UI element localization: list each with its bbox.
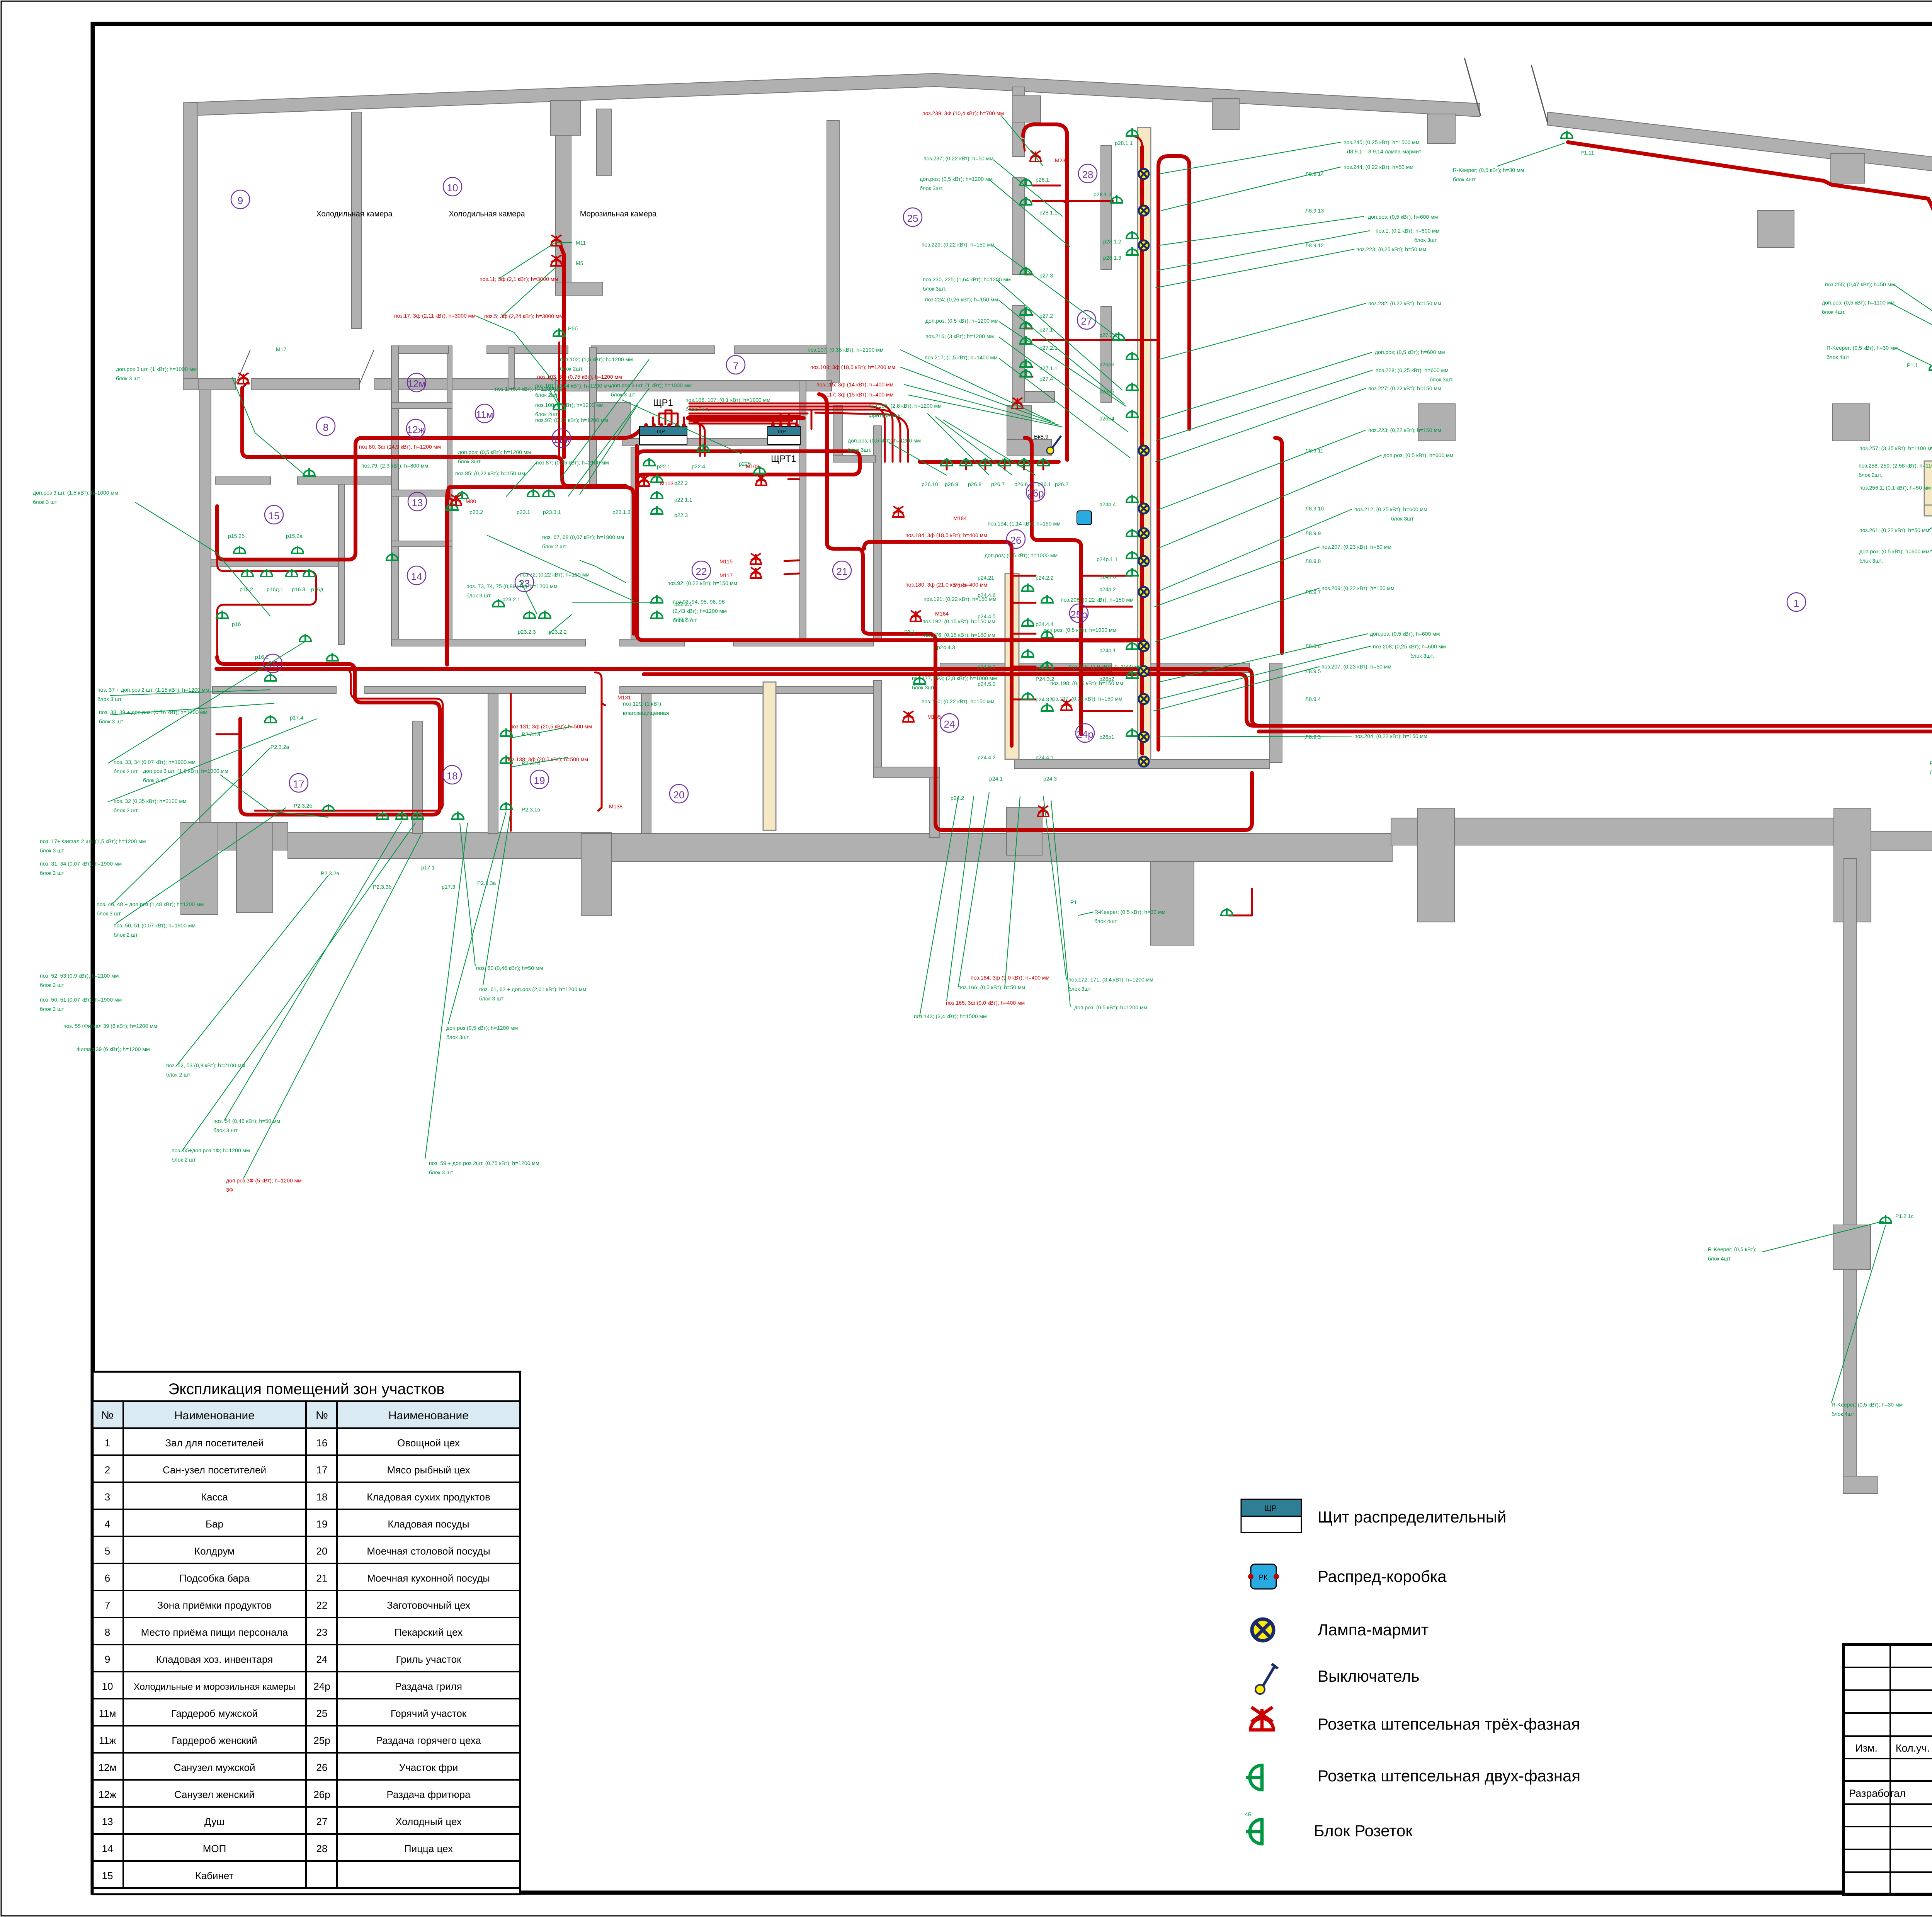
svg-text:Л8.9.10: Л8.9.10 <box>1305 505 1324 512</box>
svg-text:12ж: 12ж <box>407 424 425 435</box>
hall column B <box>1833 404 1870 441</box>
wall x=2621 seg2 <box>1013 178 1025 274</box>
svg-text:ЩР1: ЩР1 <box>653 398 673 408</box>
wall rooms8/15 divider <box>215 477 270 484</box>
two-phase socket at 2930,1490 <box>1126 568 1138 576</box>
two-phase socket at 2930,1445 <box>1126 551 1138 558</box>
fry area east stub <box>1007 439 1051 455</box>
legend: socket block <box>1245 1811 1413 1844</box>
marmite lamp at 2960,1166 <box>1139 446 1149 456</box>
svg-text:M11: M11 <box>576 240 586 246</box>
svg-text:R-Keeper; (0,5 кВт); h=30 мм: R-Keeper; (0,5 кВт); h=30 мм <box>1453 167 1524 173</box>
svg-text:M108: M108 <box>746 463 759 469</box>
south outer wall (left) <box>181 823 288 850</box>
svg-text:№: № <box>316 1409 328 1422</box>
trunk SHCHR1 west along y1133 then down to p15.1 <box>217 431 639 560</box>
svg-text:M117: M117 <box>719 572 733 578</box>
room22 west wall <box>631 447 638 640</box>
svg-text:p16.3: p16.3 <box>292 586 305 592</box>
svg-text:блок 4шт: блок 4шт <box>1827 354 1850 360</box>
13/14 divider <box>391 541 452 547</box>
svg-text:поз. 50, 51 (0,07 кВт); h=1900: поз. 50, 51 (0,07 кВт); h=1900 мм <box>114 922 196 929</box>
legend: two-phase socket <box>1246 1766 1580 1790</box>
svg-text:Кол.уч.: Кол.уч. <box>1896 1742 1930 1754</box>
wire room17 inner loop <box>238 669 443 811</box>
svg-text:26р: 26р <box>313 1789 330 1800</box>
svg-text:19: 19 <box>534 775 545 786</box>
room22 east wall <box>799 381 806 640</box>
svg-text:17: 17 <box>316 1464 328 1476</box>
svg-text:блок 4шт: блок 4шт <box>1708 1255 1731 1262</box>
corridor north wall seg2 <box>620 639 685 646</box>
svg-text:поз. 32 (0,35 кВт); h=2100 мм: поз. 32 (0,35 кВт); h=2100 мм <box>114 798 187 804</box>
two-phase socket at 1380,1285 <box>527 489 539 497</box>
wall x=2621 seg3 <box>1013 305 1025 402</box>
two-phase socket at 2380,1770 <box>914 676 925 684</box>
two-phase socket at 800,1232 <box>303 468 315 476</box>
svg-text:доп.роз; (0,5 кВт); h=1200 мм: доп.роз; (0,5 кВт); h=1200 мм <box>920 176 993 182</box>
marmite lamp at 2960,450 <box>1139 169 1149 179</box>
two-phase socket at 1015,1450 <box>386 553 398 560</box>
svg-text:доп.роз 3 шт. (1,5 кВт); h=100: доп.роз 3 шт. (1,5 кВт); h=1000 мм <box>33 490 118 496</box>
two-phase socket at 1196,1290 <box>456 491 468 498</box>
svg-text:p24р.2: p24р.2 <box>1099 586 1116 592</box>
svg-text:Щит распределительный: Щит распределительный <box>1318 1508 1506 1526</box>
svg-text:МОП: МОП <box>203 1843 226 1854</box>
marmite lamp at 2960,1907 <box>1139 732 1149 742</box>
svg-text:поз.97; (0,23 кВт); h=1200 мм: поз.97; (0,23 кВт); h=1200 мм <box>535 417 608 423</box>
bar U counter left <box>1924 461 1932 515</box>
svg-text:блок 3шт.: блок 3шт. <box>1391 515 1415 522</box>
three-phase socket at 2680,410 <box>1030 151 1041 162</box>
bar U counter bottom <box>1924 505 1932 516</box>
svg-text:M131: M131 <box>617 694 631 701</box>
two-phase socket at 850,2100 <box>323 804 334 811</box>
two-phase socket at 860,1710 <box>327 653 338 661</box>
trunk serving vertical pair <box>864 542 1012 746</box>
svg-text:p22.2.1: p22.2.1 <box>674 601 692 607</box>
svg-text:поз.129; (1 кВт);: поз.129; (1 кВт); <box>623 701 663 707</box>
two-phase socket at 1820,1168 <box>697 444 709 451</box>
marmite lamp at 2960,1316 <box>1139 503 1149 514</box>
svg-text:поз.199; (2,9 кВт); h=1000 мм: поз.199; (2,9 кВт); h=1000 мм <box>1069 663 1142 670</box>
two-phase socket at 1700,1330 <box>651 506 663 514</box>
svg-text:поз.197; (0,22 кВт); h=150 мм: поз.197; (0,22 кВт); h=150 мм <box>1049 696 1122 702</box>
wall between rooms 9 and 10 <box>352 112 361 328</box>
three-phase socket at 1180,1300 <box>451 495 461 505</box>
svg-text:19: 19 <box>316 1518 328 1530</box>
svg-text:блок 3 шт: блок 3 шт <box>429 1169 453 1175</box>
two-phase socket at 2930,660 <box>1126 247 1138 255</box>
svg-text:18: 18 <box>316 1491 328 1503</box>
hall column A <box>1418 404 1455 441</box>
marmite lamp at 2960,1971 <box>1139 757 1149 767</box>
svg-text:p26р6: p26р6 <box>1099 361 1114 367</box>
svg-text:9: 9 <box>238 195 243 206</box>
two-phase socket at 2930,1755 <box>1126 670 1138 678</box>
two-phase socket at 1170,1320 <box>446 502 458 510</box>
two-phase socket at 2655,530 <box>1020 197 1032 205</box>
two-phase socket at 1290,1570 <box>493 599 504 607</box>
two-phase socket at 1700,1600 <box>651 611 663 618</box>
two-phase socket at 4055,358 <box>1561 131 1573 138</box>
marmite lamp at 2960,1532 <box>1139 587 1149 597</box>
north wall seg <box>487 346 568 354</box>
column below band <box>551 100 580 135</box>
svg-text:p16: p16 <box>232 621 241 627</box>
svg-text:7: 7 <box>105 1599 110 1611</box>
legend: junction box <box>1248 1564 1447 1589</box>
room21 east wall <box>874 426 881 642</box>
svg-text:поз.198; (0,15 кВт); h=150 мм: поз.198; (0,15 кВт); h=150 мм <box>1050 680 1123 686</box>
two-phase socket at 1420,1285 <box>543 489 554 497</box>
wall 28 side upper <box>1101 145 1112 269</box>
wires SHCHRT1 fan <box>773 413 797 425</box>
two-phase socket at 2655,850 <box>1020 321 1032 328</box>
svg-text:доп.роз; (0,5 кВт); h=1200 мм: доп.роз; (0,5 кВт); h=1200 мм <box>848 437 921 444</box>
pilaster <box>581 833 612 916</box>
two-phase socket at 1310,1905 <box>500 728 512 736</box>
two-phase socket at 2930,1905 <box>1126 728 1138 736</box>
svg-text:16: 16 <box>316 1437 328 1449</box>
svg-text:доп.роз; (0,5 кВт); h=1200 мм: доп.роз; (0,5 кВт); h=1200 мм <box>458 449 531 455</box>
svg-text:8: 8 <box>105 1626 110 1638</box>
svg-text:R-Keeper; (0,5 кВт); h=30 мм: R-Keeper; (0,5 кВт); h=30 мм <box>1832 1402 1903 1408</box>
door swing room 10 <box>236 350 250 384</box>
svg-text:Розетка штепсельная двух-фазна: Розетка штепсельная двух-фазная <box>1318 1767 1580 1785</box>
svg-text:блок 3 шт: блок 3 шт <box>116 375 140 381</box>
svg-text:Л8.9.12: Л8.9.12 <box>1305 242 1324 248</box>
fry sockets manifold <box>920 460 1059 464</box>
two-phase socket at 1185,2120 <box>452 811 464 819</box>
two-phase socket at 2655,815 <box>1020 307 1032 315</box>
svg-text:Зона приёмки продуктов: Зона приёмки продуктов <box>157 1599 272 1611</box>
svg-text:доп.роз 3 шт. (1 кВт); h=1000: доп.роз 3 шт. (1 кВт); h=1000 мм <box>116 366 197 372</box>
switch Vk8.9 <box>1047 447 1054 454</box>
svg-text:Кладовая хоз. инвентаря: Кладовая хоз. инвентаря <box>156 1653 273 1665</box>
svg-text:p23.3.1: p23.3.1 <box>543 509 561 515</box>
three-phase socket at 630,985 <box>238 373 249 384</box>
svg-text:ЩР: ЩР <box>778 429 786 434</box>
svg-text:14: 14 <box>102 1843 113 1854</box>
svg-text:p28.1: p28.1 <box>1036 177 1049 183</box>
svg-text:поз.131; 3ф (20,5 кВт); h=500: поз.131; 3ф (20,5 кВт); h=500 мм <box>510 723 592 730</box>
two-phase socket at 2710,1650 <box>1041 630 1053 638</box>
svg-text:p24р.3: p24р.3 <box>1099 573 1116 580</box>
svg-text:блок 3шт.: блок 3шт. <box>920 185 943 191</box>
serving south low wall <box>1014 759 1270 769</box>
svg-text:p24.1: p24.1 <box>989 776 1003 782</box>
svg-text:поз. 55+Фигзал 39 (6 кВт); h=1: поз. 55+Фигзал 39 (6 кВт); h=1200 мм <box>63 1023 157 1029</box>
two-phase socket at 2890,525 <box>1111 195 1122 203</box>
svg-text:5: 5 <box>105 1545 110 1557</box>
hall right labels <box>1453 150 1932 1417</box>
svg-text:p22.1: p22.1 <box>657 463 670 469</box>
two-phase socket at 1700,1560 <box>651 595 663 603</box>
room 9/10 labels <box>394 276 563 319</box>
svg-text:доп.роз; (0,5 кВт); h=600 мм: доп.роз; (0,5 кВт); h=600 мм <box>1370 631 1440 637</box>
svg-text:блок 2 шт: блок 2 шт <box>114 768 138 774</box>
svg-text:p16.1: p16.1 <box>255 654 269 660</box>
svg-text:Колдрум: Колдрум <box>194 1545 235 1557</box>
green leader lines <box>108 115 1932 1403</box>
svg-text:R-Keeper; (0,5 кВт); h=30 мм: R-Keeper; (0,5 кВт); h=30 мм <box>1094 909 1165 915</box>
rooms 11/12 cluster <box>361 356 770 476</box>
svg-text:блок 3шт.: блок 3шт. <box>1414 237 1438 243</box>
wire room 27 connect <box>1132 136 1142 147</box>
svg-text:Разработал: Разработал <box>1849 1788 1906 1799</box>
svg-text:блок 3 шт: блок 3 шт <box>143 777 167 783</box>
two-phase socket at 755,1492 <box>286 569 298 577</box>
north outer wall band (right of door gap) <box>1548 112 1932 175</box>
svg-text:p24.3: p24.3 <box>1043 776 1057 782</box>
svg-text:поз. 17+ Фигзал 2 шт. (1,5 кВт: поз. 17+ Фигзал 2 шт. (1,5 кВт); h=1200 … <box>40 838 146 844</box>
trunk bundle SHCHR1 to SHCHRT1 <box>688 416 804 420</box>
svg-text:Холодильная камера: Холодильная камера <box>316 210 393 218</box>
svg-text:P2.3.3б: P2.3.3б <box>373 884 392 890</box>
svg-text:Л8.9.4: Л8.9.4 <box>1305 696 1321 702</box>
svg-text:поз.100; (4 кВт); h=1200 мм: поз.100; (4 кВт); h=1200 мм <box>535 402 604 408</box>
rooms 9/10 south wall seg1 <box>198 378 236 390</box>
wire P5b drop <box>558 342 560 457</box>
two-phase socket at 2930,1300 <box>1126 495 1138 502</box>
two-phase socket at 1370,1600 <box>524 611 535 618</box>
wall 17/18 <box>413 721 423 833</box>
svg-text:блок 3шт.: блок 3шт. <box>458 458 481 464</box>
svg-text:p24р.1: p24р.1 <box>1099 647 1116 653</box>
north wall seg <box>734 346 827 354</box>
svg-text:P24.3.2: P24.3.2 <box>1036 676 1054 682</box>
svg-text:РК: РК <box>1259 1573 1268 1581</box>
svg-text:P5б: P5б <box>568 325 578 332</box>
svg-text:поз.227; (0,22 кВт); h=150 мм: поз.227; (0,22 кВт); h=150 мм <box>1368 385 1441 391</box>
trunk down 23 wall <box>449 487 634 634</box>
svg-text:p27.1.1: p27.1.1 <box>1039 365 1058 371</box>
svg-text:Фигзал 39 (6 кВт); h=1200 мм: Фигзал 39 (6 кВт); h=1200 мм <box>77 1046 150 1052</box>
svg-text:Выключатель: Выключатель <box>1318 1667 1420 1685</box>
svg-text:M239: M239 <box>1055 157 1068 163</box>
svg-text:блок 3 шт: блок 3 шт <box>40 847 64 854</box>
svg-text:блок 2 шт: блок 2 шт <box>166 1072 190 1078</box>
top loop from strip to P9 <box>1158 156 1189 429</box>
svg-text:11м: 11м <box>99 1708 116 1719</box>
svg-text:Раздача горячего цеха: Раздача горячего цеха <box>376 1735 481 1746</box>
lamp counter strip <box>1138 128 1151 759</box>
svg-text:поз.138; 3ф (20,5 кВт); h=500: поз.138; 3ф (20,5 кВт); h=500 мм <box>506 756 588 762</box>
svg-text:поз.11; 3ф (2,1 кВт); h=3000 м: поз.11; 3ф (2,1 кВт); h=3000 мм <box>480 276 558 282</box>
svg-text:поз.176; (0,15 кВт); h=150 мм: поз.176; (0,15 кВт); h=150 мм <box>922 632 995 638</box>
12m/12zh divider <box>391 402 452 408</box>
svg-text:Морозильная камера: Морозильная камера <box>580 210 657 218</box>
south outer wall (right section) <box>1391 818 1835 845</box>
svg-text:9: 9 <box>105 1653 110 1665</box>
svg-text:поз. 54 (0,46 кВт); h=50 мм: поз. 54 (0,46 кВт); h=50 мм <box>213 1118 280 1124</box>
svg-text:Изм.: Изм. <box>1855 1742 1878 1754</box>
svg-text:p23.2: p23.2 <box>469 509 483 515</box>
svg-text:Вк8.9: Вк8.9 <box>1034 434 1048 440</box>
12-block west wall <box>391 346 398 646</box>
svg-text:25: 25 <box>316 1708 328 1719</box>
room22 north wall <box>622 439 806 446</box>
svg-text:p24.4.1: p24.4.1 <box>1036 754 1054 760</box>
serving-area left labels <box>810 110 1068 720</box>
three-phase socket at 1667,1250 <box>639 475 650 486</box>
wall 15/16 divider <box>211 559 338 567</box>
svg-text:M80: M80 <box>466 498 476 504</box>
svg-text:21: 21 <box>316 1572 328 1584</box>
svg-text:поз.224; (0,26 кВт); h=150 мм: поз.224; (0,26 кВт); h=150 мм <box>925 296 998 303</box>
svg-text:поз.165; 3ф (9,0 кВт); h=400 м: поз.165; 3ф (9,0 кВт); h=400 мм <box>946 1000 1025 1006</box>
wire p15.1 down-left <box>217 549 316 661</box>
two-phase socket at 700,1762 <box>265 673 276 681</box>
room7 west boundary wall <box>827 121 839 382</box>
svg-text:блок 4шт: блок 4шт <box>1930 769 1932 776</box>
svg-text:11ж: 11ж <box>553 434 570 445</box>
svg-text:блок 2шт.: блок 2шт. <box>535 411 559 417</box>
svg-text:7: 7 <box>733 360 738 372</box>
wall 28 side lower <box>1101 306 1112 402</box>
svg-text:Гардероб мужской: Гардероб мужской <box>171 1708 258 1719</box>
corridor north wall seg1 <box>391 639 585 646</box>
two-phase socket at 2550,1205 <box>980 458 991 466</box>
svg-text:поз.261; (0,22 кВт); h=50 мм: поз.261; (0,22 кВт); h=50 мм <box>1859 527 1929 533</box>
corridor south wall seg2 <box>365 686 585 694</box>
svg-text:поз.216; (3 кВт); h=1200 мм: поз.216; (3 кВт); h=1200 мм <box>925 333 994 339</box>
svg-text:p22.3: p22.3 <box>674 512 688 518</box>
branch P1 bottom <box>1229 889 1252 915</box>
svg-text:10: 10 <box>447 182 458 194</box>
freezer stub <box>556 282 603 295</box>
svg-text:поз.209; (0,22 кВт); h=150 мм: поз.209; (0,22 кВт); h=150 мм <box>1321 585 1395 591</box>
three-phase socket at 2760,1830 <box>1061 699 1072 710</box>
legend: distribution shield <box>1241 1499 1506 1533</box>
svg-text:поз.177, 193; (2,8 кВт); h=100: поз.177, 193; (2,8 кВт); h=1000 мм <box>912 675 997 681</box>
svg-text:24: 24 <box>316 1653 328 1665</box>
svg-text:p23.2.1: p23.2.1 <box>502 596 520 602</box>
wire room16/17 loop <box>217 657 440 815</box>
red to M108/M115/M117 <box>784 479 799 574</box>
trunk 23 down from corridor <box>447 487 449 665</box>
fry area column <box>1007 406 1031 439</box>
south outer wall (middle) <box>612 833 1392 861</box>
svg-text:p27.2: p27.2 <box>1039 313 1053 319</box>
svg-text:блок 2 шт: блок 2 шт <box>40 870 64 876</box>
svg-text:p27.4: p27.4 <box>1039 376 1053 382</box>
svg-text:Л8.9.13: Л8.9.13 <box>1305 208 1324 214</box>
svg-text:Пицца цех: Пицца цех <box>404 1843 453 1854</box>
svg-text:поз.258, 259; (2,58 кВт); h=11: поз.258, 259; (2,58 кВт); h=1100 мм <box>1859 463 1932 469</box>
svg-text:Распред-коробка: Распред-коробка <box>1318 1567 1447 1585</box>
svg-text:доп.роз; (0,5 кВт); h=600 мм: доп.роз; (0,5 кВт); h=600 мм <box>1383 452 1453 458</box>
svg-text:Заготовочный цех: Заготовочный цех <box>387 1599 470 1611</box>
svg-text:поз.170; (0,22 кВт); h=150 мм: поз.170; (0,22 кВт); h=150 мм <box>922 698 995 704</box>
svg-text:влагозащищённая: влагозащищённая <box>623 710 669 716</box>
svg-text:Л8.9.9: Л8.9.9 <box>1305 530 1321 536</box>
rooms 9/10 south wall seg3 <box>375 378 556 390</box>
two-phase socket at 2660,1700 <box>1022 649 1034 657</box>
rooms 22/23 cluster <box>466 461 751 635</box>
svg-text:Зал для посетителей: Зал для посетителей <box>165 1437 264 1449</box>
svg-text:p23.2.3: p23.2.3 <box>518 629 536 635</box>
svg-text:блок 4шт: блок 4шт <box>1832 1411 1855 1417</box>
two-phase socket at 1447,870 <box>553 328 565 336</box>
svg-text:p16д: p16д <box>311 586 323 592</box>
two-phase socket at 1310,1975 <box>500 755 512 763</box>
svg-text:Кабинет: Кабинет <box>196 1870 234 1881</box>
wall 18/19 <box>488 694 498 833</box>
three-phase socket at 1440,680 <box>551 255 562 266</box>
two-phase socket at 4880,3165 <box>1880 1215 1891 1223</box>
svg-text:p15.2а: p15.2а <box>286 533 303 539</box>
svg-text:22: 22 <box>696 566 707 577</box>
svg-text:поз.232; (0,22 кВт); h=150 мм: поз.232; (0,22 кВт); h=150 мм <box>1368 300 1441 306</box>
two-phase socket at 2930,930 <box>1126 352 1138 359</box>
svg-text:поз.108; 3ф (18,5 кВт); h=1200: поз.108; 3ф (18,5 кВт); h=1200 мм <box>810 364 895 370</box>
svg-text:M138: M138 <box>609 803 622 810</box>
svg-text:28: 28 <box>1082 169 1094 180</box>
svg-text:6: 6 <box>105 1572 110 1584</box>
three-phase socket at 1956,1488 <box>750 567 761 578</box>
two-phase socket at 2930,1388 <box>1126 529 1138 536</box>
svg-text:поз.239; 3Ф (10,4 кВт); h=700: поз.239; 3Ф (10,4 кВт); h=700 мм <box>922 110 1004 116</box>
svg-text:ЩР: ЩР <box>657 429 665 434</box>
wires SHCHR1 fan <box>653 410 684 424</box>
two-phase socket at 3175,2369 <box>1221 908 1233 915</box>
svg-text:p28.1.2: p28.1.2 <box>1103 238 1121 245</box>
trunk into corridor from p17 <box>935 773 1252 830</box>
svg-text:поз.212; (0,25 кВт); h=600 мм: поз.212; (0,25 кВт); h=600 мм <box>1354 506 1427 512</box>
svg-text:Экспликация помещений зон учас: Экспликация помещений зон участков <box>168 1381 444 1398</box>
svg-text:p16.2: p16.2 <box>240 586 253 592</box>
svg-text:P1: P1 <box>1070 899 1077 905</box>
svg-text:P1.1: P1.1 <box>1907 362 1918 368</box>
two-phase socket at 2710,1730 <box>1041 661 1053 668</box>
svg-text:R-Keeper; (0,5 кВт); h=30 мм: R-Keeper; (0,5 кВт); h=30 мм <box>1827 345 1898 351</box>
svg-text:24: 24 <box>944 718 955 730</box>
svg-text:доп.роз (0,5 кВт); h=1200 мм: доп.роз (0,5 кВт); h=1200 мм <box>446 1025 518 1031</box>
band column 2 <box>1212 99 1239 129</box>
pilaster below serving <box>1151 861 1194 945</box>
left margin labels <box>33 366 280 1163</box>
svg-text:поз. 61, 62 + доп.роз (2,01 кВ: поз. 61, 62 + доп.роз (2,01 кВт); h=1200… <box>479 986 586 992</box>
two-phase socket at 1410,1600 <box>539 611 551 618</box>
door swing lines at north gap <box>1464 58 1481 116</box>
svg-text:Бар: Бар <box>206 1518 223 1530</box>
trunk left top: M17 wall corner <box>242 383 247 388</box>
svg-text:p26.6: p26.6 <box>1014 481 1028 487</box>
svg-text:Моечная кухонной посуды: Моечная кухонной посуды <box>367 1572 490 1584</box>
svg-text:блок 3шт.: блок 3шт. <box>1430 376 1453 383</box>
svg-text:поз. 67, 68 (0,07 кВт); h=1900: поз. 67, 68 (0,07 кВт); h=1900 мм <box>542 534 624 540</box>
svg-text:поз.80; 3ф (14,9 кВт); h=1200: поз.80; 3ф (14,9 кВт); h=1200 мм <box>359 444 441 450</box>
svg-text:поз.1; (0,2 кВт); h=600 мм: поз.1; (0,2 кВт); h=600 мм <box>1376 228 1439 234</box>
serving corridor south wall segB <box>1141 663 1250 672</box>
three-phase socket at 2700,2105 <box>1038 806 1049 816</box>
svg-text:17: 17 <box>293 778 304 790</box>
svg-text:Раздача фритюра: Раздача фритюра <box>387 1789 471 1800</box>
marmite lamp at 2960,1452 <box>1139 556 1149 566</box>
svg-text:поз.180; 3ф (21,0 кВт); h=400: поз.180; 3ф (21,0 кВт); h=400 мм <box>905 582 987 588</box>
wall x=2621 seg1 <box>1013 87 1025 156</box>
svg-text:поз.228; (0,25 кВт); h=600 мм: поз.228; (0,25 кВт); h=600 мм <box>1376 367 1449 373</box>
junction box Rk26lm <box>1077 511 1092 525</box>
marmite lamp at 2960,545 <box>1139 206 1149 216</box>
two-phase socket at 1040,2120 <box>396 811 408 819</box>
svg-text:Л8.9.3: Л8.9.3 <box>1305 734 1321 740</box>
svg-text:10: 10 <box>102 1681 113 1692</box>
svg-text:поз.230, 225; (1,64 кВт); h=12: поз.230, 225; (1,64 кВт); h=1200 мм <box>923 276 1011 282</box>
svg-text:блок 2 шт: блок 2 шт <box>114 932 138 938</box>
